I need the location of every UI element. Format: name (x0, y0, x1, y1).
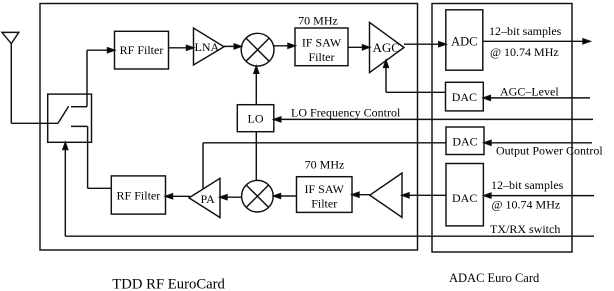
mixer M2 (TX) (242, 180, 274, 212)
wire LO Frequency Control input (274, 117, 593, 122)
svg-text:12–bit samples: 12–bit samples (489, 24, 562, 38)
label LO Frequency Control (291, 105, 401, 119)
block DAC (AGC level) (446, 82, 484, 111)
wire RF Filter to LNA (169, 45, 194, 50)
wire TX/RX switch control (63, 143, 594, 237)
label Output Power Control (496, 144, 603, 158)
antenna ANT (2, 32, 19, 123)
wire AGC-Level input (483, 96, 590, 101)
svg-text:12–bit samples: 12–bit samples (491, 178, 564, 192)
label 12-bit samples (RX) (489, 24, 562, 38)
svg-text:AGC: AGC (373, 40, 400, 55)
block DAC (TX samples) (446, 164, 483, 226)
svg-text:DAC: DAC (452, 90, 477, 104)
amplifier PA (189, 178, 220, 217)
block ADC (446, 10, 483, 70)
svg-text:Filter: Filter (311, 197, 337, 211)
svg-text:70 MHz: 70 MHz (305, 158, 345, 172)
block LO (237, 105, 273, 132)
wire DAC to PA gain control (203, 143, 446, 189)
label AGC-Level (500, 84, 559, 98)
svg-text:@ 10.74 MHz: @ 10.74 MHz (492, 197, 561, 211)
wire ADC output 12-bit samples (483, 39, 590, 44)
svg-text:70 MHz: 70 MHz (298, 14, 338, 28)
block IF SAW Filter (TX) (297, 177, 353, 213)
wire IF SAW filter to AGC (348, 45, 370, 50)
svg-text:ADAC Euro Card: ADAC Euro Card (449, 271, 540, 285)
wire LO to mixer M2 (255, 132, 257, 181)
wire TX amplifier to IF SAW filter (TX) (352, 192, 370, 197)
block DAC (output power) (446, 127, 484, 155)
wire mixer to IF SAW filter (RX) (274, 43, 295, 48)
label 12-bit samples (TX) (491, 178, 564, 192)
amplifier AGC (370, 22, 405, 72)
svg-text:IF SAW: IF SAW (302, 35, 342, 49)
svg-text:DAC: DAC (452, 191, 477, 205)
svg-text:PA: PA (201, 192, 216, 206)
label TX/RX switch (490, 222, 560, 236)
svg-text:ADC: ADC (451, 34, 477, 48)
switch S1 (TX/RX antenna switch) (48, 94, 92, 142)
svg-text:AGC–Level: AGC–Level (500, 84, 559, 98)
label @ 10.74 MHz (RX) (490, 45, 559, 59)
wire Output Power Control input (484, 140, 592, 145)
svg-text:IF SAW: IF SAW (305, 182, 345, 196)
svg-text:Filter: Filter (309, 50, 335, 64)
label 70 MHz (TX) (305, 158, 345, 172)
svg-text:DAC: DAC (452, 134, 477, 148)
label ADAC Euro Card caption (449, 271, 540, 285)
wire 12-bit samples input (TX) (484, 193, 594, 198)
svg-text:Output Power Control: Output Power Control (496, 144, 603, 158)
svg-text:RF Filter: RF Filter (117, 188, 161, 202)
wire DAC to TX amplifier (402, 193, 446, 198)
svg-text:LO: LO (248, 112, 264, 126)
wire AGC to ADC (404, 42, 446, 47)
card outline ADAC Euro Card (432, 4, 572, 253)
label @ 10.74 MHz (TX) (492, 197, 561, 211)
block IF SAW Filter (RX) (295, 28, 348, 66)
wire antenna to switch (11, 122, 58, 124)
label 70 MHz (RX) (298, 14, 338, 28)
wire PA to RF filter (TX) (166, 194, 191, 199)
block RF Filter (TX) (111, 176, 165, 214)
svg-text:TX/RX switch: TX/RX switch (490, 222, 560, 236)
svg-text:TDD RF EuroCard: TDD RF EuroCard (112, 277, 225, 291)
label TDD RF EuroCard caption (112, 277, 225, 291)
mixer M1 (RX) (241, 33, 274, 66)
wire switch upper throw to RF filter (RX) (87, 48, 115, 107)
svg-text:LNA: LNA (195, 40, 220, 54)
amplifier TX (unlabeled) (370, 173, 402, 217)
svg-text:@ 10.74 MHz: @ 10.74 MHz (490, 45, 559, 59)
wire RF filter (TX) to switch lower throw (88, 126, 112, 188)
wire mixer M2 to PA (220, 195, 242, 200)
card outline TDD RF EuroCard (40, 4, 418, 251)
svg-text:LO Frequency Control: LO Frequency Control (291, 105, 401, 119)
wire mixer M1 to LO (254, 66, 259, 105)
wire IF SAW filter to mixer M2 (274, 194, 297, 199)
wire LNA to mixer (224, 44, 241, 49)
svg-text:RF Filter: RF Filter (120, 43, 164, 57)
amplifier LNA (194, 28, 225, 65)
wire DAC to AGC control (384, 60, 446, 92)
block RF Filter (RX) (115, 31, 169, 69)
